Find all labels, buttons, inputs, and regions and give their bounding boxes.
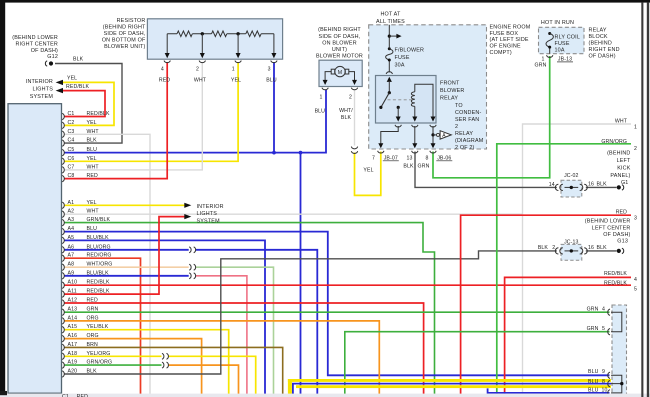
svg-text:INTERIOR: INTERIOR: [197, 204, 224, 210]
svg-text:RED/BLK: RED/BLK: [604, 281, 627, 287]
svg-text:8: 8: [425, 156, 428, 162]
wire BLU to connector pin 10: [488, 388, 610, 393]
svg-text:RIGHT END: RIGHT END: [589, 47, 620, 53]
wire RED A12: [64, 303, 424, 397]
svg-text:2: 2: [196, 67, 199, 73]
svg-text:YEL: YEL: [87, 120, 97, 126]
wire WHT C7 to resistor pin 2: [64, 62, 202, 170]
svg-text:BLOWER UNIT): BLOWER UNIT): [104, 44, 145, 50]
wire YEL C2 to interior lights arrow: [62, 82, 115, 125]
svg-text:WHT: WHT: [87, 129, 100, 135]
svg-text:A3: A3: [68, 217, 75, 223]
wire WHT/BLK blower motor pin 2: [354, 90, 356, 146]
svg-text:A2: A2: [68, 209, 75, 215]
svg-text:A13: A13: [68, 307, 78, 313]
wire BLU C5 branch down to shielded pin 8: [300, 153, 302, 397]
svg-text:RED/BLK: RED/BLK: [604, 271, 627, 277]
svg-text:FUSE: FUSE: [555, 41, 570, 47]
page connector A to condenser fan relay: [433, 103, 484, 151]
resistor outputs with arrows: [167, 34, 274, 54]
svg-text:2: 2: [634, 146, 637, 152]
pin arc relay top: [386, 72, 392, 74]
svg-text:BLU: BLU: [87, 147, 98, 153]
pin 7 JB-07: [378, 151, 384, 153]
wire BLU C5 to blower motor pin 1: [64, 90, 326, 153]
svg-text:C4: C4: [68, 138, 75, 144]
pin A5 BLU/BLK: [62, 235, 109, 244]
svg-text:A12: A12: [68, 298, 78, 304]
svg-text:SYSTEM: SYSTEM: [30, 94, 54, 100]
svg-text:BLK: BLK: [538, 245, 549, 251]
junction node resistor tap 1: [236, 32, 239, 35]
svg-text:BRN: BRN: [87, 342, 98, 348]
wire RED/BLK A10 to exit 5: [64, 284, 631, 286]
pin 4 resistor: [164, 61, 170, 63]
wire BLK JC-02 to ground G1: [586, 186, 617, 188]
svg-text:TO: TO: [455, 103, 463, 109]
svg-text:RED/BLK: RED/BLK: [87, 289, 110, 295]
pin A2 WHT: [62, 209, 99, 218]
wire GRN A13 to connector pin 4: [64, 311, 610, 313]
svg-text:1: 1: [319, 94, 322, 100]
svg-text:A19: A19: [68, 360, 78, 366]
svg-text:GRN: GRN: [535, 63, 547, 69]
wire GRN JB-06 pin 8 to JB-13 fuse: [433, 56, 550, 178]
junction node feed branch: [388, 35, 391, 38]
svg-text:RED: RED: [87, 298, 98, 304]
pin A8 WHT/ORG: [62, 262, 112, 271]
svg-text:WHT: WHT: [87, 164, 100, 170]
svg-text:4: 4: [161, 67, 164, 73]
branch arrow to other circuits: [389, 35, 397, 37]
svg-text:ON BLOWER: ON BLOWER: [322, 41, 357, 47]
pin C2 YEL: [62, 120, 96, 129]
wire RED exit 3: [461, 215, 631, 397]
svg-text:WHT/: WHT/: [339, 108, 353, 114]
svg-text:WHT/ORG: WHT/ORG: [87, 262, 113, 268]
svg-text:KICK: KICK: [617, 166, 631, 172]
svg-text:BLK: BLK: [597, 245, 608, 251]
svg-text:BLOWER: BLOWER: [440, 88, 464, 94]
svg-text:G13: G13: [617, 239, 628, 245]
relay pin arcs: [395, 125, 436, 127]
svg-text:FUSE: FUSE: [395, 55, 410, 61]
svg-text:BLK: BLK: [403, 164, 414, 170]
svg-text:F/BLOWER: F/BLOWER: [395, 47, 425, 53]
svg-text:PANEL): PANEL): [610, 173, 630, 179]
svg-text:BLU/BLK: BLU/BLK: [87, 235, 110, 241]
inline connector A8 WHT/ORG to LT-GRN: [189, 264, 195, 270]
svg-text:C8: C8: [68, 173, 75, 179]
svg-text:YEL: YEL: [67, 76, 77, 82]
pin A10 RED/BLK: [62, 280, 110, 289]
wire RED/BLK exit 4: [505, 277, 631, 397]
pin A13 GRN: [62, 307, 98, 316]
wire BLU A4 to connector pin 9: [64, 232, 610, 376]
inline connector A9 BLU/BLK to PNK: [189, 273, 195, 279]
svg-text:8: 8: [602, 379, 605, 385]
svg-text:OF DASH): OF DASH): [603, 232, 630, 238]
junction connector JC-13: [538, 240, 607, 261]
svg-text:BLU/ORG: BLU/ORG: [87, 244, 111, 250]
svg-text:2: 2: [349, 94, 352, 100]
svg-text:C5: C5: [68, 147, 75, 153]
wire GRN/ORG exit 2: [497, 144, 631, 397]
resistor element 1: [177, 31, 192, 37]
resistor element 3: [246, 31, 261, 37]
svg-text:LIGHTS: LIGHTS: [197, 211, 218, 217]
svg-text:RELAY: RELAY: [440, 96, 458, 102]
svg-text:4: 4: [634, 277, 637, 283]
svg-text:RED/BLK: RED/BLK: [87, 111, 110, 117]
pin A19 GRN/ORG: [62, 360, 112, 369]
svg-text:LIGHTS: LIGHTS: [32, 86, 53, 92]
wire WHT/ORG A8 to LT-GRN: [64, 266, 189, 268]
svg-text:16: 16: [588, 182, 594, 188]
svg-text:WHT: WHT: [615, 118, 628, 124]
svg-text:ENGINE ROOM: ENGINE ROOM: [490, 24, 531, 30]
pin A14 ORG: [62, 315, 98, 324]
svg-text:RED: RED: [87, 173, 98, 179]
pin A4 BLU: [62, 226, 97, 235]
svg-text:BLU: BLU: [315, 108, 326, 114]
svg-text:BLK: BLK: [597, 182, 608, 188]
svg-text:RELAY: RELAY: [589, 28, 607, 34]
svg-text:BLU: BLU: [588, 387, 599, 393]
pin A11 RED/BLK: [62, 289, 110, 298]
svg-text:A14: A14: [68, 315, 78, 321]
svg-text:WHT: WHT: [194, 77, 207, 83]
wire BLK G12 to C4: [55, 64, 122, 144]
svg-text:BLK: BLK: [73, 57, 84, 63]
ground G13: [617, 249, 621, 253]
svg-text:RED/BLK: RED/BLK: [87, 280, 110, 286]
junction node pin 8 jumper: [620, 382, 623, 385]
ground G1: [617, 185, 621, 189]
svg-text:1: 1: [232, 67, 235, 73]
relay block JB-13 (dashed): [539, 20, 620, 60]
wire BRN A17: [64, 347, 283, 397]
svg-text:ON BOTTOM OF: ON BOTTOM OF: [102, 38, 146, 44]
svg-text:GRN: GRN: [587, 326, 599, 332]
svg-text:10A: 10A: [555, 48, 565, 54]
inline connector A18 YEL/ORG: [162, 353, 168, 359]
svg-text:A6: A6: [68, 244, 75, 250]
svg-text:30A: 30A: [395, 62, 405, 68]
svg-text:JC-02: JC-02: [564, 173, 578, 179]
wire fuse to JB-13 pin 1: [549, 49, 551, 54]
svg-text:RESISTOR: RESISTOR: [117, 18, 146, 24]
junction node condenser fan branch: [431, 133, 434, 136]
wire YEL C6 to resistor pin 1: [64, 62, 238, 161]
svg-text:BLU: BLU: [87, 226, 98, 232]
right connector block (dashed): [612, 305, 627, 397]
wire BLU shielded to connector pin 8: [293, 384, 611, 397]
wire RED/BLK A11 to interior lights arrow: [64, 217, 185, 295]
junction node resistor tap 2: [201, 32, 204, 35]
svg-text:BLOWER MOTOR: BLOWER MOTOR: [316, 54, 363, 60]
svg-text:OF DASH): OF DASH): [589, 54, 616, 60]
connector block G12 (left instrument harness): [8, 104, 62, 394]
svg-text:BLU: BLU: [266, 77, 277, 83]
svg-text:BLU: BLU: [588, 369, 599, 375]
pin 8 JB-06 GRN: [430, 151, 436, 153]
pin A7 RED/ORG: [62, 253, 111, 262]
svg-text:C7: C7: [68, 164, 75, 170]
svg-text:SIDE OF DASH,: SIDE OF DASH,: [319, 34, 361, 40]
pin C1 RED/BLK: [62, 111, 110, 120]
svg-text:4: 4: [602, 307, 605, 313]
svg-text:2: 2: [455, 124, 458, 130]
svg-text:A17: A17: [68, 342, 78, 348]
wire RED/ORG A7: [64, 258, 141, 397]
pin 2 resistor: [199, 61, 205, 63]
wire ORG A14: [64, 321, 379, 397]
wire fuse to relay: [388, 62, 390, 73]
svg-text:RED/BLK: RED/BLK: [66, 84, 89, 90]
inline connector A19 GRN/ORG to ORG: [162, 362, 168, 368]
pin 13 JB-06 BLK: [412, 151, 418, 153]
resistor element 2: [212, 31, 227, 37]
wire BLK JB-06 pin 13 to JC-02: [415, 152, 557, 188]
pin C4 BLK: [62, 138, 97, 147]
svg-text:OF DASH): OF DASH): [31, 48, 58, 54]
svg-text:GRN: GRN: [587, 307, 599, 313]
wire BLK A20 to JC-13: [64, 251, 557, 374]
pin A20 BLK: [62, 369, 97, 378]
svg-text:FUSE BOX: FUSE BOX: [490, 31, 519, 37]
svg-text:FRONT: FRONT: [440, 81, 460, 87]
pin A15 YEL/BLK: [62, 324, 109, 333]
svg-text:3: 3: [634, 215, 637, 221]
pin A12 RED: [62, 298, 98, 307]
wire BLU/BLK A9 to PNK: [64, 275, 189, 277]
svg-text:ALL TIMES: ALL TIMES: [376, 19, 405, 25]
svg-text:HOT AT: HOT AT: [380, 12, 401, 18]
svg-text:OF ENGINE: OF ENGINE: [490, 44, 521, 50]
relay coil: [411, 92, 414, 107]
svg-text:GRN: GRN: [87, 307, 99, 313]
svg-text:YEL/BLK: YEL/BLK: [87, 324, 109, 330]
svg-text:A1: A1: [68, 200, 75, 206]
engine room fuse box (dashed): [369, 12, 531, 150]
svg-text:(BEHIND: (BEHIND: [607, 151, 630, 157]
svg-text:M: M: [338, 70, 342, 76]
svg-text:(AT LEFT SIDE: (AT LEFT SIDE: [490, 37, 529, 43]
pin 3 resistor: [271, 61, 277, 63]
pin A17 BRN: [62, 342, 98, 351]
svg-text:WHT: WHT: [87, 209, 100, 215]
pin A18 YEL/ORG: [62, 351, 110, 360]
svg-text:A20: A20: [68, 369, 78, 375]
pin C7 WHT: [62, 164, 99, 173]
wire RED/BLK C1 to interior lights arrow: [62, 91, 106, 117]
svg-text:(BEHIND LOWER: (BEHIND LOWER: [12, 35, 58, 41]
wire YEL A1 to interior lights arrow: [64, 204, 185, 206]
svg-text:(BEHIND LOWER: (BEHIND LOWER: [585, 219, 631, 225]
resistor block (blower resistor): [102, 18, 283, 83]
pin A9 BLU/BLK: [62, 270, 109, 279]
pin A16 ORG: [62, 333, 98, 342]
feed wire hot at all times: [388, 25, 390, 48]
wire YEL blower connector to JB-07 pin 7: [355, 152, 381, 196]
interior lights system left: [26, 76, 90, 100]
svg-text:CONDEN-: CONDEN-: [455, 110, 481, 116]
svg-text:A5: A5: [68, 235, 75, 241]
svg-text:LEFT: LEFT: [617, 158, 631, 164]
svg-text:LEFT CENTER: LEFT CENTER: [592, 225, 631, 231]
wire GRN/BLK A3: [64, 223, 435, 397]
wire WHT exit 1: [523, 124, 632, 397]
wire BLU/BLK A5: [64, 240, 265, 397]
ground G12: [12, 35, 58, 66]
pin 1 JB-13: [547, 55, 553, 57]
svg-text:INTERIOR: INTERIOR: [26, 79, 53, 85]
ground G1 label: [607, 151, 631, 186]
svg-text:C6: C6: [68, 156, 75, 162]
wire ORG A16: [64, 339, 202, 397]
svg-text:HOT IN RUN: HOT IN RUN: [541, 20, 574, 26]
pin C6 YEL: [62, 156, 96, 165]
svg-text:C2: C2: [68, 120, 75, 126]
pin A6 BLU/ORG: [62, 244, 111, 253]
svg-text:YEL/ORG: YEL/ORG: [87, 351, 111, 357]
svg-text:BLK: BLK: [341, 115, 352, 121]
svg-text:A9: A9: [68, 270, 75, 276]
wire relay contact to JB-07 pin 7: [381, 126, 398, 144]
pin A1 YEL: [62, 200, 96, 209]
svg-text:A11: A11: [68, 289, 77, 295]
svg-text:RLY COIL: RLY COIL: [555, 34, 581, 40]
svg-text:3: 3: [268, 67, 271, 73]
svg-text:5: 5: [602, 326, 605, 332]
wire WHT C3: [64, 134, 150, 397]
blower motor: [315, 27, 363, 121]
svg-text:C3: C3: [68, 129, 75, 135]
svg-text:SIDE OF DASH,: SIDE OF DASH,: [104, 31, 146, 37]
svg-text:(BEHIND RIGHT: (BEHIND RIGHT: [103, 25, 146, 31]
svg-text:C1: C1: [68, 111, 75, 117]
wire WHT A2 to riser: [64, 213, 523, 215]
junction connector JC-02: [549, 173, 607, 197]
svg-text:9: 9: [602, 369, 605, 375]
svg-text:GRN/BLK: GRN/BLK: [87, 217, 111, 223]
svg-text:RELAY: RELAY: [455, 131, 473, 137]
svg-text:10: 10: [602, 387, 608, 393]
svg-text:COMPT): COMPT): [490, 50, 512, 56]
svg-text:GRN: GRN: [418, 164, 430, 170]
svg-text:1: 1: [634, 125, 637, 131]
interior lights system right: [184, 203, 223, 225]
svg-text:G12: G12: [47, 54, 58, 60]
svg-text:YEL: YEL: [87, 200, 97, 206]
svg-text:RED/ORG: RED/ORG: [87, 253, 112, 259]
wire YEL/BLK A15: [64, 330, 229, 397]
svg-text:BLK: BLK: [87, 138, 98, 144]
svg-text:13: 13: [406, 156, 412, 162]
svg-text:7: 7: [372, 156, 375, 162]
ground G13 label: [585, 219, 631, 245]
jumper pins 9-8-10: [611, 375, 622, 393]
pin C5 BLU: [62, 147, 97, 156]
svg-text:(DIAGRAM: (DIAGRAM: [455, 138, 484, 144]
svg-text:14: 14: [549, 182, 555, 188]
svg-text:(BEHIND RIGHT: (BEHIND RIGHT: [318, 27, 361, 33]
svg-text:RIGHT CENTER: RIGHT CENTER: [16, 41, 59, 47]
svg-text:BLOCK: BLOCK: [589, 34, 608, 40]
junction node C5 branch BLU: [299, 151, 303, 155]
pin 1 blower motor: [322, 88, 328, 90]
junction node C5/resistor BLU: [272, 151, 276, 155]
pin 2 blower motor: [351, 88, 357, 90]
svg-text:RED: RED: [616, 209, 627, 215]
pin A3 GRN/BLK: [62, 217, 110, 226]
wire BLK JC-13 to ground G13: [586, 250, 617, 252]
wire BLU/ORG A6: [64, 249, 189, 251]
svg-text:16: 16: [588, 245, 594, 251]
shield YEL around pin 8 wire: [288, 379, 292, 397]
wire YEL/ORG A18: [64, 355, 162, 357]
svg-text:A15: A15: [68, 324, 78, 330]
wire relay coil low to pin 13: [414, 126, 416, 144]
wire GRN/ORG A19 to ORG: [64, 364, 162, 366]
motor M symbol: [335, 66, 345, 76]
svg-text:(BEHIND: (BEHIND: [589, 41, 612, 47]
svg-text:SYSTEM: SYSTEM: [197, 219, 221, 225]
wire BLU resistor pin 3 drop: [273, 62, 275, 153]
svg-text:ORG: ORG: [87, 315, 99, 321]
svg-text:GRN/ORG: GRN/ORG: [87, 360, 113, 366]
svg-text:BLK: BLK: [87, 369, 98, 375]
pin 1 resistor: [235, 61, 241, 63]
fuse F/BLOWER 30A: [386, 47, 424, 68]
svg-text:A16: A16: [68, 333, 78, 339]
svg-text:A18: A18: [68, 351, 78, 357]
svg-text:BLU: BLU: [588, 379, 599, 385]
wire RED C8 to resistor pin 4: [64, 62, 167, 179]
inline connector A6 BLU/ORG: [189, 247, 195, 253]
svg-text:A7: A7: [68, 253, 75, 259]
pin C3 WHT: [62, 129, 99, 138]
svg-text:A10: A10: [68, 280, 78, 286]
jumper pins 4-5: [611, 312, 622, 332]
svg-text:5: 5: [634, 287, 637, 293]
front blower relay: [376, 76, 465, 124]
exit arrows at fuse box bottom edge: [378, 143, 383, 148]
svg-text:YEL: YEL: [87, 156, 97, 162]
pin C8 RED: [62, 173, 98, 182]
wire GRN to connector pin 5: [345, 332, 610, 397]
svg-text:2 OF 2): 2 OF 2): [455, 145, 475, 151]
svg-text:GRN/ORG: GRN/ORG: [601, 139, 627, 145]
svg-text:RED: RED: [159, 77, 170, 83]
inline connector WHT/BLK to YEL: [351, 147, 357, 154]
svg-text:UNIT): UNIT): [332, 47, 347, 53]
wire relay coil high to pin 8: [432, 126, 434, 144]
fuse RLY COIL 10A: [546, 32, 580, 54]
svg-text:YEL: YEL: [363, 168, 373, 174]
svg-text:SER FAN: SER FAN: [455, 117, 479, 123]
svg-text:A4: A4: [68, 226, 75, 232]
svg-text:YEL: YEL: [231, 77, 241, 83]
svg-text:BLU/BLK: BLU/BLK: [87, 270, 110, 276]
svg-text:ORG: ORG: [87, 333, 99, 339]
svg-text:A8: A8: [68, 262, 75, 268]
